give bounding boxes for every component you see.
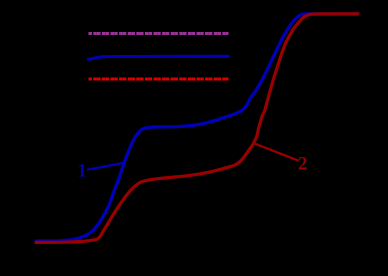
legend dashed red line [89,78,229,81]
curve 1 (blue titration curve) [36,14,358,241]
callout line for label 2 [253,143,298,161]
callout line for label 1 [87,163,123,170]
legend solid blue line [89,56,229,59]
svg-text:1: 1 [77,162,86,182]
legend dashed purple line [89,32,229,35]
svg-text:2: 2 [298,155,307,175]
curve 2 (dark red titration curve) [36,14,358,243]
